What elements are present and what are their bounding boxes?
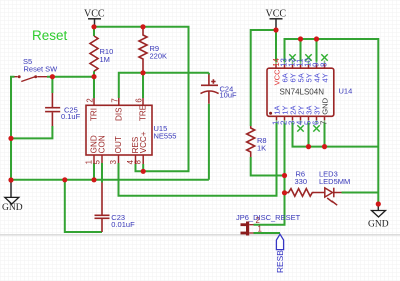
svg-text:JP6_DISC_RESET: JP6_DISC_RESET: [236, 213, 301, 222]
capacitor C23: [95, 183, 110, 233]
svg-text:TRE: TRE: [139, 104, 148, 121]
svg-text:TRI: TRI: [90, 108, 99, 121]
junction U14 pin11: [298, 36, 303, 41]
svg-text:3: 3: [109, 160, 118, 164]
connector JP6: [246, 222, 249, 236]
junction U14 pin9: [314, 36, 319, 41]
no-connect X pin6: [313, 125, 319, 131]
svg-text:1K: 1K: [257, 144, 266, 153]
junction GND right node: [376, 201, 381, 206]
supply VCC 1: [88, 19, 101, 27]
svg-text:2: 2: [86, 98, 95, 102]
svg-text:4Y: 4Y: [320, 73, 329, 82]
svg-text:OUT: OUT: [114, 136, 123, 153]
svg-text:8: 8: [134, 160, 143, 164]
junction VCC1: [91, 24, 96, 29]
junction C25 bottom: [8, 136, 13, 141]
svg-text:GND: GND: [2, 203, 23, 213]
no-connect X pin12: [289, 54, 295, 60]
LED LED3: [313, 188, 342, 206]
junction VCC+ pin8: [141, 169, 146, 174]
wire 555 OUT to U14 1A: [119, 123, 277, 196]
svg-text:VCC: VCC: [266, 8, 287, 19]
wire U14 bottom inputs to GND: [293, 123, 379, 147]
resistor R8: [247, 126, 255, 157]
resistor R9: [139, 27, 147, 73]
svg-text:Reset: Reset: [32, 28, 68, 43]
junction R6 to 1Y: [282, 190, 287, 195]
wire R8 bottom to 1Y: [251, 157, 285, 176]
junction switch node: [50, 74, 55, 79]
IC U15 NE555 box: [86, 105, 152, 155]
svg-text:CON: CON: [98, 135, 107, 153]
svg-text:GND: GND: [320, 97, 329, 114]
svg-text:330: 330: [295, 177, 308, 186]
svg-text:NE555: NE555: [154, 131, 177, 140]
junction U14 pin7: [322, 144, 327, 149]
svg-text:6: 6: [135, 98, 144, 102]
wire R10 top: [93, 27, 95, 36]
wire C24 vertical: [208, 73, 210, 180]
svg-text:7: 7: [320, 121, 329, 125]
U15 pin stubs bottom: [94, 155, 143, 164]
wire RES/VCC+ to rail: [136, 164, 144, 171]
U14 pin stubs top: [276, 61, 325, 65]
wire DIS TRE C24 row: [119, 73, 209, 98]
svg-text:SN74LS04N: SN74LS04N: [280, 88, 325, 97]
junction GND left node: [8, 177, 13, 182]
wire VCC2 to R8 top: [251, 30, 276, 126]
svg-text:1M: 1M: [100, 55, 110, 64]
capacitor C24 (polarized): [201, 75, 219, 104]
svg-text:VCC: VCC: [84, 8, 105, 19]
svg-text:5: 5: [92, 159, 101, 164]
svg-text:DIS: DIS: [115, 107, 124, 121]
capacitor C25: [45, 93, 60, 126]
wire C25 bottom loop: [11, 126, 52, 138]
wire switch row: [11, 77, 94, 180]
svg-text:1: 1: [258, 225, 262, 234]
wire C23 bottom loop: [65, 180, 102, 232]
no-connect X pin4: [297, 125, 303, 131]
U14 pin stubs bottom: [277, 120, 325, 124]
junction U14 pin5: [306, 144, 311, 149]
svg-text:RESB: RESB: [275, 250, 285, 273]
no-connect X pin10: [305, 54, 311, 60]
wire VCC2 down to U14 pin14: [275, 30, 277, 62]
wire R10 bottom to TRI: [93, 71, 95, 98]
no-connect X pin8: [321, 54, 327, 60]
junction R9 top: [140, 24, 145, 29]
wire 555 CON pin5 to C23: [101, 163, 103, 183]
svg-text:8: 8: [320, 62, 329, 66]
U15 pin stubs top: [94, 98, 143, 105]
svg-text:0.1uF: 0.1uF: [61, 112, 81, 121]
supply VCC 2: [270, 19, 283, 30]
wire LED cathode to GND: [342, 192, 379, 194]
svg-text:GND: GND: [368, 219, 389, 229]
svg-text:7: 7: [110, 98, 119, 102]
junction 555 pin1: [91, 177, 96, 182]
resistor R10: [90, 36, 98, 71]
wire U14 grounded inputs top rail: [285, 39, 379, 204]
svg-text:U14: U14: [339, 87, 353, 96]
wire 555 GND pin1 down: [93, 163, 95, 180]
ground GND right: [377, 204, 379, 211]
net flag RESB: [276, 234, 283, 249]
wire U14 1Y net down: [254, 123, 285, 225]
svg-text:Reset SW: Reset SW: [24, 65, 59, 74]
wire ground rail left: [11, 179, 209, 181]
wire JP6 pin1 to RESB flag: [254, 232, 281, 234]
sheet boundary line: [0, 234, 400, 236]
U14 pin1 marker: [269, 112, 272, 115]
junction R8 to 1Y: [282, 173, 287, 178]
ground GND left: [10, 180, 12, 197]
switch S5: [15, 76, 48, 81]
junction R9 bottom: [140, 70, 145, 75]
resistor R6: [287, 189, 314, 197]
junction VCC2: [273, 27, 278, 32]
svg-text:0.01uF: 0.01uF: [111, 220, 135, 229]
junction C23 loop: [62, 177, 67, 182]
svg-text:220K: 220K: [150, 51, 168, 60]
wire top rail from VCC1: [94, 27, 189, 172]
svg-text:LED5MM: LED5MM: [319, 177, 350, 186]
junction R10 bottom: [91, 74, 96, 79]
svg-text:VCC+: VCC+: [139, 131, 148, 153]
IC U14 SN74LS04N box: [267, 68, 334, 116]
svg-text:10uF: 10uF: [220, 91, 238, 100]
